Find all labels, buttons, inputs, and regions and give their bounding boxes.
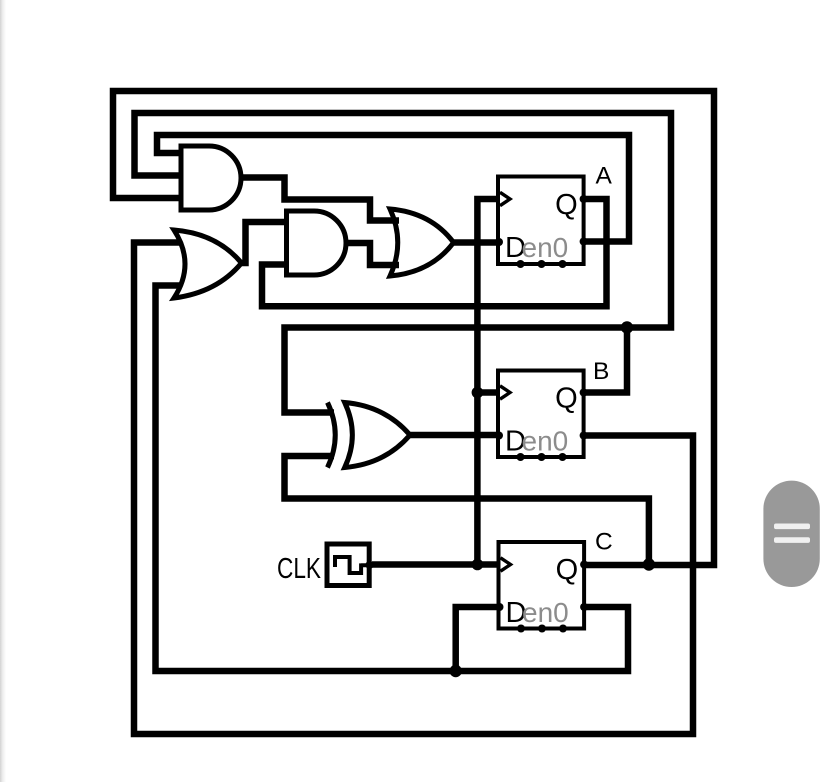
clock input CLK xyxy=(277,544,374,586)
flip-flop B xyxy=(495,358,609,461)
flip-flop A enable pin dots xyxy=(517,260,525,268)
flip-flop B pin Qb dot xyxy=(580,432,588,440)
flip-flop C clock chevron xyxy=(501,558,511,571)
flip-flop A xyxy=(495,163,613,269)
wire net A.Qb: top row3 feeding AND1 input1 xyxy=(157,135,629,242)
flip-flop A pin Q dot xyxy=(580,195,588,203)
svg-text:en0: en0 xyxy=(522,426,569,457)
wire net C.Q outer loop: AND1 input3, top, right side down to C.Q pin xyxy=(113,91,714,565)
wire AND1 output to OR2 input1 xyxy=(240,178,399,221)
svg-text:en0: en0 xyxy=(522,232,569,263)
wire clock vertical distribution up to A clock xyxy=(477,199,499,565)
wire XOR output to B.D input xyxy=(409,432,499,439)
junction B.Q xyxy=(621,321,633,333)
junction on clock at B row xyxy=(472,387,484,399)
AND gate U1 (top left, 3 inputs) xyxy=(181,146,241,210)
flip-flop A box xyxy=(498,177,584,265)
svg-text:A: A xyxy=(596,163,613,190)
clock CLK output pin dot xyxy=(366,561,374,569)
flip-flop C pin Q dot xyxy=(580,561,588,569)
flip-flop C box xyxy=(499,542,585,629)
flip-flop C xyxy=(496,529,613,633)
junction C.Q / XOR feedback xyxy=(643,558,655,570)
flip-flop B pin D dot xyxy=(495,432,503,440)
svg-text:en0: en0 xyxy=(522,597,569,628)
flip-flop C pin D dot xyxy=(496,603,504,611)
flip-flop B enable pin dots xyxy=(517,453,525,461)
wire net B.Q stub from Q pin up to junction xyxy=(584,328,627,393)
wire net C.Qb feedback to OR1 input2 xyxy=(156,286,629,672)
OR gate U2 (left) xyxy=(174,230,242,298)
junction on clock at CLK row xyxy=(472,559,484,571)
wire net B.Q loop: AND1 input2, top row2, down right, across to XOR input1 xyxy=(135,113,672,413)
flip-flop A clock chevron xyxy=(500,192,510,205)
flip-flop A pin Qb dot xyxy=(580,238,588,246)
wire net C.Q branch to XOR input2 xyxy=(285,456,649,565)
AND gate U3 (middle) xyxy=(287,211,347,275)
XOR gate U5 body xyxy=(345,403,410,468)
svg-text:B: B xyxy=(593,358,609,385)
wire OR2 output to A.D input xyxy=(453,239,499,246)
wire net C.Qb branch up to C.D input xyxy=(456,607,499,671)
svg-text:Q: Q xyxy=(556,554,579,586)
wire net A.Q feedback to AND2 input2 xyxy=(262,199,607,306)
wire net B.Qb feedback to OR1 input1 xyxy=(134,243,693,735)
wire AND2 output to OR2 input2 xyxy=(345,243,399,265)
svg-text:C: C xyxy=(595,529,613,556)
flip-flop B pin Q dot xyxy=(580,389,588,397)
flip-flop C pin Qb dot xyxy=(580,603,588,611)
clock CLK waveform glyph xyxy=(335,557,369,573)
svg-text:Q: Q xyxy=(555,383,578,415)
flip-flop B clock chevron xyxy=(500,386,510,399)
OR gate U4 (middle right) xyxy=(390,209,454,276)
junction C.D tap on bottom wire xyxy=(450,665,462,677)
clock CLK box xyxy=(327,544,369,586)
svg-text:CLK: CLK xyxy=(277,553,322,585)
svg-text:Q: Q xyxy=(555,189,578,221)
flip-flop C enable pin dots xyxy=(517,625,525,633)
flip-flop A pin D dot xyxy=(495,238,503,246)
left screen edge shading xyxy=(0,0,6,782)
wire CLK to C clock input xyxy=(372,561,499,568)
wire clock tap to B clock xyxy=(477,389,499,396)
flip-flop B box xyxy=(498,371,584,458)
drawer handle (right edge UI element) xyxy=(763,481,819,587)
wire OR1 output to AND2 input1 xyxy=(242,222,288,263)
XOR gate U5 front arc xyxy=(328,403,336,468)
